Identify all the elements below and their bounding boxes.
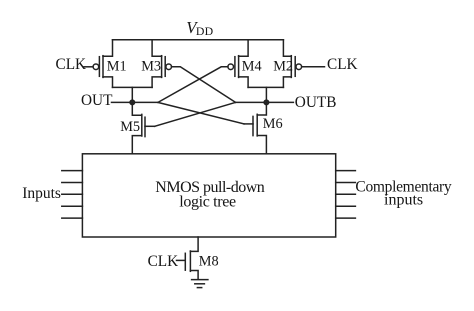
transistor M5 (NMOS)	[120, 102, 154, 153]
svg-text:inputs: inputs	[384, 192, 423, 209]
svg-text:CLK: CLK	[327, 56, 358, 73]
label Complementary inputs	[355, 178, 452, 208]
wire OUTB	[236, 101, 294, 103]
wire input tick 3	[62, 193, 83, 195]
svg-text:CLK: CLK	[148, 253, 179, 270]
transistor M6 (NMOS)	[244, 102, 283, 153]
svg-text:M3: M3	[141, 59, 161, 75]
transistor M1 (PMOS)	[93, 40, 127, 88]
transistor M3 (PMOS)	[141, 40, 171, 88]
wire complementary tick 3	[336, 193, 356, 195]
wire drain rail to OUTB node	[265, 87, 267, 102]
wire input tick 5	[62, 217, 83, 219]
svg-text:M6: M6	[263, 116, 283, 132]
wire input tick 1	[62, 170, 83, 172]
transistor M4 (PMOS)	[228, 40, 262, 88]
wire M5 gate to OUTB (cross-couple)	[155, 102, 236, 126]
transistor M2 (PMOS)	[273, 40, 301, 88]
wire M1/M3 drain rail	[113, 86, 153, 88]
wire complementary tick 4	[336, 205, 356, 207]
wire complementary tick 2	[336, 182, 356, 184]
transistor M8 (NMOS)	[185, 251, 218, 279]
wire input tick 4	[62, 205, 83, 207]
wire VDD rail	[113, 39, 284, 41]
ground symbol	[192, 280, 208, 288]
wire M4/M2 drain rail	[248, 86, 283, 88]
svg-text:Inputs: Inputs	[22, 185, 61, 202]
svg-text:logic tree: logic tree	[179, 194, 236, 211]
node OUTB junction	[264, 100, 269, 105]
block NMOS pull-down logic tree box	[82, 154, 335, 237]
wire complementary tick 1	[336, 170, 356, 172]
wire complementary tick 5	[336, 217, 356, 219]
wire M6 gate to OUT (cross-couple)	[158, 102, 244, 124]
wire drain rail to OUT node	[131, 87, 133, 102]
wire CLK to M8 gate	[177, 259, 186, 261]
wire M4 gate to OUT (cross-couple)	[158, 67, 228, 103]
svg-text:DD: DD	[196, 24, 214, 38]
svg-text:M5: M5	[120, 119, 140, 135]
svg-text:M4: M4	[242, 59, 262, 75]
svg-text:OUTB: OUTB	[295, 94, 337, 111]
net VDD label	[186, 18, 213, 38]
svg-text:M1: M1	[107, 59, 127, 75]
wire M3 gate to OUTB (cross-couple)	[172, 67, 236, 103]
svg-text:M2: M2	[273, 59, 293, 75]
wire input tick 2	[62, 182, 83, 184]
node OUT junction	[130, 100, 135, 105]
svg-text:CLK: CLK	[56, 56, 87, 73]
wire OUT	[112, 101, 159, 103]
wire M2 gate to CLK	[302, 66, 325, 68]
svg-text:OUT: OUT	[81, 92, 113, 109]
wire CLK to M1 gate	[84, 66, 93, 68]
svg-text:M8: M8	[199, 254, 219, 270]
wire box to M8 drain	[190, 237, 198, 251]
